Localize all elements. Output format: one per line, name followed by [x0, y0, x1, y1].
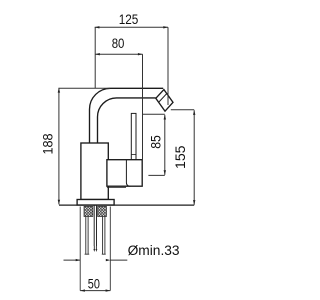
- pop-up rod fork: [94, 246, 96, 250]
- aerator nozzle: [156, 90, 173, 112]
- svg-text:188: 188: [41, 133, 57, 154]
- svg-text:50: 50: [88, 277, 100, 293]
- dimension 188 line: [58, 88, 60, 204]
- svg-text:80: 80: [112, 36, 125, 52]
- handle boss shoulder: [107, 186, 126, 188]
- spout inner curve with bottom edge: [98, 98, 156, 143]
- right supply tube: [102, 217, 106, 255]
- svg-text:85: 85: [148, 135, 164, 149]
- extension line at handle level: [148, 174, 164, 176]
- lever stick: [131, 113, 136, 159]
- dimension 125 line: [95, 26, 168, 28]
- upper 50 dimension line with leader to diameter note: [64, 259, 128, 261]
- extension line under aerator: [142, 113, 165, 115]
- base flange: [77, 200, 114, 206]
- dimension 80 line: [95, 53, 143, 55]
- threaded shank left: [84, 206, 93, 216]
- extension line right of 80: [142, 54, 144, 160]
- extension line 50 right: [109, 207, 111, 291]
- threaded shank right: [98, 206, 107, 216]
- deck line: [59, 204, 194, 206]
- extension line right of 125: [167, 27, 169, 105]
- extension line top left: [59, 87, 111, 89]
- body: [81, 143, 108, 200]
- lever stick base line: [131, 154, 136, 156]
- spout riser and outer curve with top edge: [90, 88, 164, 143]
- dimension 85 line: [164, 115, 166, 175]
- handle boss step: [126, 160, 130, 187]
- aerator joint line: [159, 93, 167, 102]
- left supply tube: [85, 217, 90, 255]
- pop-up rod: [94, 206, 96, 247]
- svg-text:125: 125: [119, 12, 139, 28]
- centerline extension above spout: [94, 27, 96, 88]
- svg-text:Ømin.33: Ømin.33: [128, 243, 180, 259]
- dimension 155 line: [193, 110, 195, 205]
- extension line 50 left: [79, 207, 81, 291]
- svg-text:155: 155: [173, 145, 189, 169]
- dimension 50 line: [80, 290, 110, 292]
- extension line right of aerator: [171, 109, 194, 111]
- handle boss: [107, 160, 142, 187]
